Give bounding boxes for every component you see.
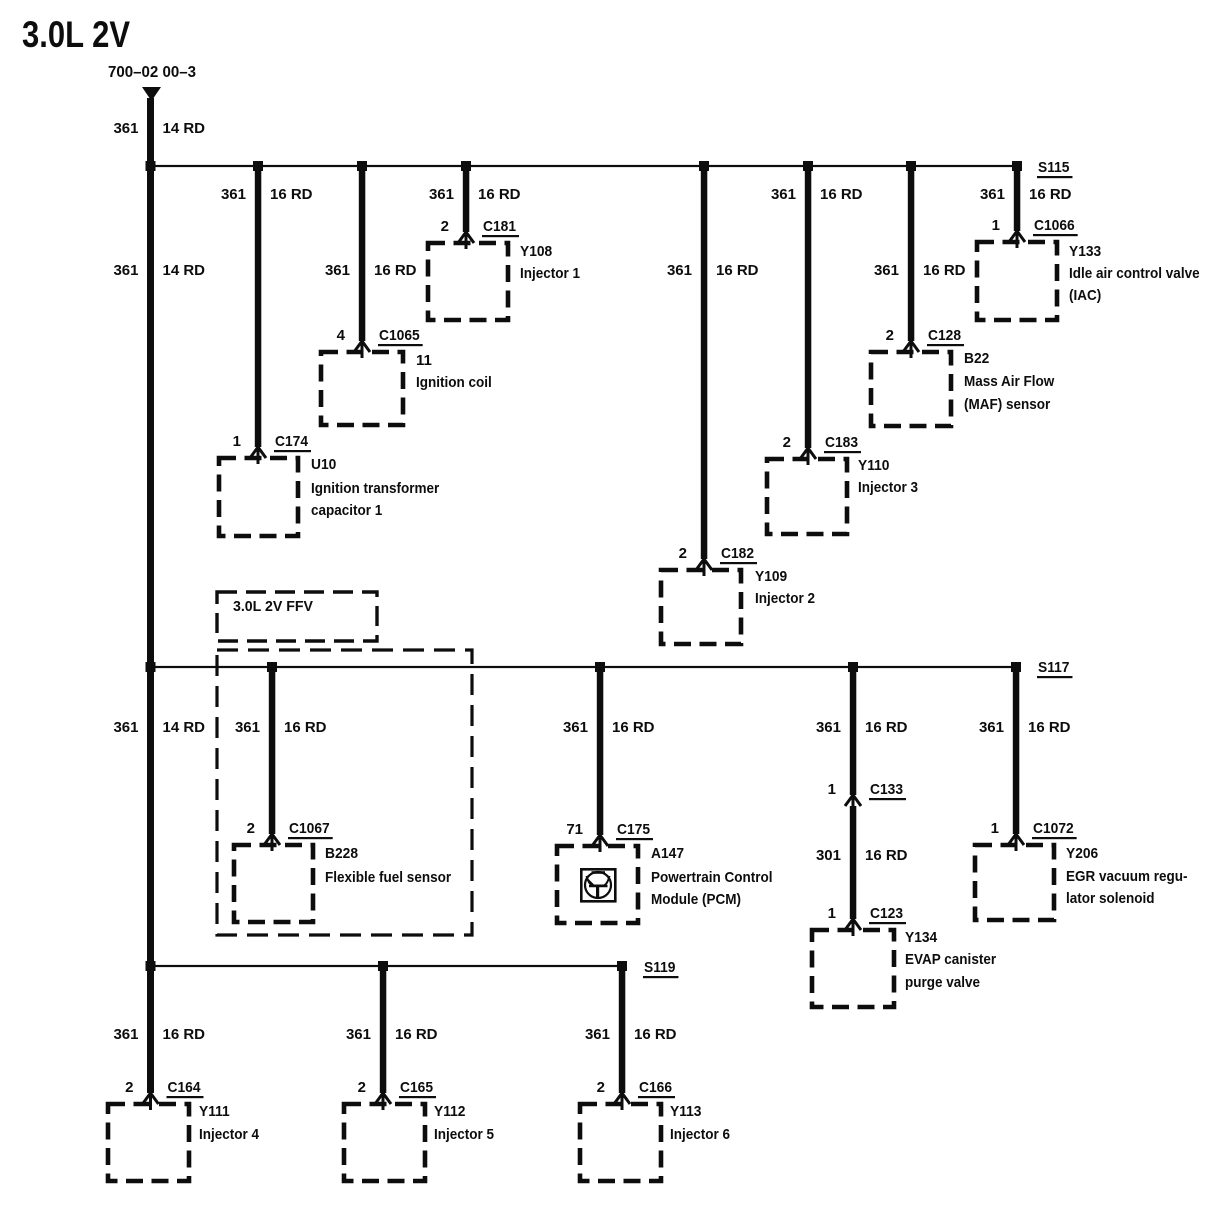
svg-text:361: 361 — [113, 262, 138, 279]
svg-text:14 RD: 14 RD — [163, 120, 206, 137]
svg-text:16 RD: 16 RD — [1029, 186, 1072, 203]
svg-text:1: 1 — [992, 217, 1000, 234]
svg-text:(MAF) sensor: (MAF) sensor — [964, 396, 1050, 413]
svg-text:purge valve: purge valve — [905, 974, 980, 991]
svg-text:16 RD: 16 RD — [865, 719, 908, 736]
svg-text:C182: C182 — [721, 545, 754, 562]
svg-text:1: 1 — [991, 820, 999, 837]
svg-text:Mass Air Flow: Mass Air Flow — [964, 373, 1055, 390]
svg-text:4: 4 — [337, 327, 346, 344]
svg-text:C183: C183 — [825, 434, 858, 451]
svg-text:1: 1 — [233, 433, 241, 450]
svg-text:3.0L 2V FFV: 3.0L 2V FFV — [233, 598, 313, 615]
svg-text:361: 361 — [235, 719, 260, 736]
svg-text:361: 361 — [667, 262, 692, 279]
svg-text:Y133: Y133 — [1069, 243, 1101, 260]
svg-text:361: 361 — [980, 186, 1005, 203]
svg-text:361: 361 — [325, 262, 350, 279]
svg-text:C181: C181 — [483, 218, 516, 235]
svg-text:A147: A147 — [651, 845, 684, 862]
svg-text:C1067: C1067 — [289, 820, 330, 837]
svg-text:16 RD: 16 RD — [163, 1026, 206, 1043]
svg-text:361: 361 — [816, 719, 841, 736]
svg-text:2: 2 — [441, 218, 449, 235]
svg-text:16 RD: 16 RD — [284, 719, 327, 736]
svg-text:U10: U10 — [311, 456, 336, 473]
svg-text:16 RD: 16 RD — [395, 1026, 438, 1043]
svg-text:361: 361 — [429, 186, 454, 203]
svg-text:C1065: C1065 — [379, 327, 420, 344]
svg-text:361: 361 — [346, 1026, 371, 1043]
svg-text:C128: C128 — [928, 327, 961, 344]
svg-text:301: 301 — [816, 847, 841, 864]
svg-text:361: 361 — [113, 719, 138, 736]
svg-text:EGR vacuum regu-: EGR vacuum regu- — [1066, 868, 1188, 885]
svg-text:Y134: Y134 — [905, 929, 938, 946]
svg-text:2: 2 — [679, 545, 687, 562]
svg-text:C174: C174 — [275, 433, 309, 450]
svg-text:2: 2 — [358, 1079, 366, 1096]
svg-text:C133: C133 — [870, 781, 903, 798]
svg-text:Module (PCM): Module (PCM) — [651, 891, 741, 908]
svg-text:16 RD: 16 RD — [634, 1026, 677, 1043]
svg-text:16 RD: 16 RD — [374, 262, 417, 279]
svg-text:2: 2 — [597, 1079, 605, 1096]
svg-text:14 RD: 14 RD — [163, 719, 206, 736]
svg-text:2: 2 — [783, 434, 791, 451]
svg-text:Y111: Y111 — [199, 1103, 230, 1120]
svg-text:16 RD: 16 RD — [716, 262, 759, 279]
svg-text:S119: S119 — [644, 959, 676, 976]
svg-text:C165: C165 — [400, 1079, 433, 1096]
svg-text:C164: C164 — [168, 1079, 202, 1096]
svg-text:lator solenoid: lator solenoid — [1066, 890, 1155, 907]
svg-text:Y113: Y113 — [670, 1103, 702, 1120]
svg-text:2: 2 — [886, 327, 894, 344]
svg-text:2: 2 — [247, 820, 255, 837]
svg-text:Injector 2: Injector 2 — [755, 590, 815, 607]
svg-text:361: 361 — [771, 186, 796, 203]
svg-text:Flexible fuel sensor: Flexible fuel sensor — [325, 869, 451, 886]
svg-text:Y109: Y109 — [755, 568, 787, 585]
svg-text:361: 361 — [563, 719, 588, 736]
svg-text:Injector 3: Injector 3 — [858, 479, 918, 496]
svg-text:C1066: C1066 — [1034, 217, 1075, 234]
svg-text:3.0L 2V: 3.0L 2V — [22, 14, 130, 55]
svg-text:16 RD: 16 RD — [270, 186, 313, 203]
svg-text:Ignition transformer: Ignition transformer — [311, 480, 439, 497]
svg-text:S115: S115 — [1038, 159, 1070, 176]
svg-text:Injector 6: Injector 6 — [670, 1126, 730, 1143]
svg-text:14 RD: 14 RD — [163, 262, 206, 279]
svg-text:Injector 4: Injector 4 — [199, 1126, 260, 1143]
svg-text:700–02 00–3: 700–02 00–3 — [108, 64, 196, 81]
svg-text:C166: C166 — [639, 1079, 672, 1096]
svg-text:361: 361 — [874, 262, 899, 279]
svg-text:2: 2 — [125, 1079, 133, 1096]
svg-text:Y112: Y112 — [434, 1103, 466, 1120]
svg-text:capacitor 1: capacitor 1 — [311, 502, 382, 519]
svg-text:C1072: C1072 — [1033, 820, 1074, 837]
svg-text:361: 361 — [113, 120, 138, 137]
svg-text:Y110: Y110 — [858, 457, 890, 474]
svg-text:Y206: Y206 — [1066, 845, 1098, 862]
svg-text:Injector 1: Injector 1 — [520, 265, 580, 282]
svg-text:16 RD: 16 RD — [820, 186, 863, 203]
svg-text:Injector 5: Injector 5 — [434, 1126, 494, 1143]
svg-text:11: 11 — [416, 352, 432, 369]
svg-text:Powertrain Control: Powertrain Control — [651, 869, 773, 886]
svg-text:361: 361 — [221, 186, 246, 203]
svg-text:16 RD: 16 RD — [865, 847, 908, 864]
svg-text:B228: B228 — [325, 845, 358, 862]
svg-text:C123: C123 — [870, 905, 903, 922]
svg-text:16 RD: 16 RD — [478, 186, 521, 203]
svg-text:361: 361 — [585, 1026, 610, 1043]
svg-text:C175: C175 — [617, 821, 650, 838]
svg-text:361: 361 — [979, 719, 1004, 736]
svg-text:Y108: Y108 — [520, 243, 552, 260]
svg-text:B22: B22 — [964, 350, 989, 367]
svg-text:EVAP canister: EVAP canister — [905, 951, 996, 968]
svg-text:S117: S117 — [1038, 659, 1070, 676]
svg-text:1: 1 — [828, 781, 836, 798]
svg-text:16 RD: 16 RD — [1028, 719, 1071, 736]
svg-text:361: 361 — [113, 1026, 138, 1043]
svg-text:(IAC): (IAC) — [1069, 287, 1101, 304]
svg-text:1: 1 — [828, 905, 836, 922]
svg-text:Ignition coil: Ignition coil — [416, 374, 492, 391]
svg-text:Idle air control valve: Idle air control valve — [1069, 265, 1200, 282]
svg-text:16 RD: 16 RD — [612, 719, 655, 736]
svg-text:16 RD: 16 RD — [923, 262, 966, 279]
svg-text:71: 71 — [566, 821, 583, 838]
